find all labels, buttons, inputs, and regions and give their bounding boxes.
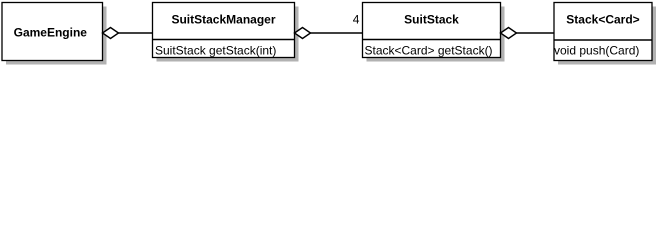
svg-text:SuitStack getStack(int): SuitStack getStack(int) bbox=[155, 44, 276, 58]
svg-text:Stack<Card> getStack(): Stack<Card> getStack() bbox=[365, 44, 493, 58]
aggregation diamond at SuitStackManager end bbox=[295, 28, 311, 39]
shadow of class SuitStackManager bbox=[157, 7, 299, 62]
svg-text:4: 4 bbox=[353, 12, 360, 26]
shadow of class Stack&lt;Card&gt; bbox=[558, 7, 656, 65]
wire SuitStack to Stack&lt;Card&gt; bbox=[517, 32, 555, 34]
divider Stack&lt;Card&gt; bbox=[554, 39, 652, 41]
aggregation diamond at SuitStack end bbox=[501, 28, 517, 39]
aggregation diamond at GameEngine end bbox=[103, 28, 119, 39]
class box Stack&lt;Card&gt; bbox=[554, 3, 652, 61]
wire GameEngine to SuitStackManager bbox=[119, 32, 153, 34]
svg-text:Stack<Card>: Stack<Card> bbox=[566, 12, 639, 26]
divider SuitStackManager bbox=[153, 39, 295, 41]
class box SuitStack bbox=[363, 3, 501, 58]
shadow of class GameEngine bbox=[6, 7, 107, 65]
svg-text:void push(Card): void push(Card) bbox=[554, 44, 639, 58]
divider SuitStack bbox=[363, 39, 501, 41]
svg-text:SuitStack: SuitStack bbox=[404, 12, 459, 26]
svg-text:SuitStackManager: SuitStackManager bbox=[171, 12, 275, 26]
shadow of class SuitStack bbox=[367, 7, 505, 62]
svg-text:GameEngine: GameEngine bbox=[14, 25, 88, 39]
class box GameEngine bbox=[2, 3, 103, 61]
wire SuitStackManager to SuitStack bbox=[311, 32, 363, 34]
class box SuitStackManager bbox=[153, 3, 295, 58]
